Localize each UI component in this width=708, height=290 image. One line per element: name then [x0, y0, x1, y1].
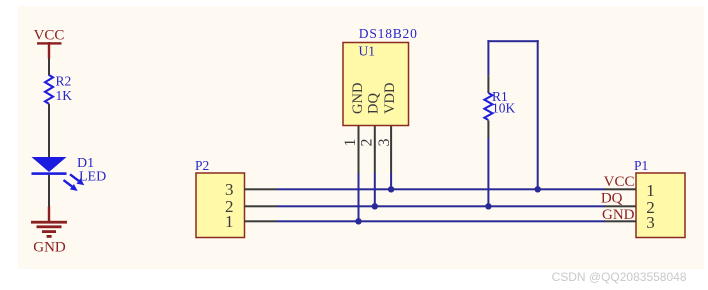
wire GND net [277, 220, 606, 222]
junction U1 pin1 / GND net [355, 218, 361, 224]
junction R1 / DQ net [485, 203, 491, 209]
svg-text:DS18B20: DS18B20 [359, 26, 418, 41]
junction U1 pin3 / VCC net [388, 186, 394, 192]
net label VCC [604, 174, 635, 190]
pin name DQ [365, 93, 381, 114]
LED D1 [32, 157, 85, 191]
wire R1 top loop [487, 40, 538, 190]
label P1 [634, 158, 648, 173]
svg-text:2: 2 [359, 139, 376, 147]
svg-text:VDD: VDD [382, 83, 398, 114]
svg-text:10K: 10K [492, 100, 516, 115]
resistor R1 [484, 75, 492, 138]
label 1K [56, 88, 73, 103]
label R1 [492, 89, 508, 104]
junction R1 loop / VCC net [535, 186, 541, 192]
connector P1 [636, 173, 685, 238]
IC U1 DS18B20 [343, 43, 409, 126]
svg-text:DQ: DQ [601, 191, 623, 207]
wire R1 bottom to DQ net [487, 138, 489, 206]
pin 3 of P2 [245, 188, 277, 190]
wire R2 to LED [48, 104, 50, 158]
pin 1 of P2 [245, 220, 277, 222]
label R2 [56, 73, 72, 88]
pin 3 of P1 [605, 220, 637, 222]
svg-text:U1: U1 [359, 44, 376, 59]
svg-text:VCC: VCC [604, 174, 635, 190]
pin 1 of P1 [605, 188, 637, 190]
svg-text:P2: P2 [195, 158, 209, 173]
junction U1 pin2 / DQ net [372, 203, 378, 209]
resistor R2 [45, 75, 53, 104]
pin 1 of U1 [342, 126, 360, 173]
net label GND [602, 207, 635, 223]
pin 3 of U1 [376, 126, 393, 173]
wire U1 pin3 to VCC net [390, 173, 392, 190]
net label DQ [601, 191, 623, 207]
svg-text:3: 3 [646, 213, 655, 232]
wire DQ net [277, 205, 606, 207]
svg-text:GND: GND [350, 83, 366, 114]
svg-text:GND: GND [33, 240, 66, 256]
svg-text:VCC: VCC [34, 28, 65, 44]
svg-text:R2: R2 [56, 73, 72, 88]
svg-text:1: 1 [225, 212, 234, 231]
label DS18B20 [359, 26, 418, 41]
wire VCC net [277, 188, 606, 190]
pin 2 of P2 [245, 205, 277, 207]
label 10K [492, 100, 516, 115]
svg-text:DQ: DQ [365, 93, 381, 114]
svg-text:LED: LED [79, 170, 106, 185]
watermark [552, 270, 687, 284]
power VCC [34, 28, 65, 59]
svg-text:CSDN @QQ2083558048: CSDN @QQ2083558048 [552, 270, 687, 284]
wire U1 pin1 to GND net [358, 173, 360, 222]
pin 2 of P1 [605, 205, 637, 207]
svg-text:1: 1 [342, 139, 359, 147]
connector P2 [196, 173, 245, 238]
label D1 [77, 156, 94, 171]
wire U1 pin2 to DQ net [374, 173, 376, 207]
pin name GND [350, 83, 366, 114]
svg-text:3: 3 [376, 139, 393, 147]
svg-text:1K: 1K [56, 88, 73, 103]
wire VCC to R2 [48, 59, 50, 76]
svg-text:P1: P1 [634, 158, 648, 173]
wire LED to GND [48, 175, 50, 207]
ground [31, 206, 67, 255]
label P2 [195, 158, 209, 173]
label LED [79, 170, 106, 185]
pin 2 of U1 [359, 126, 376, 173]
pin name VDD [382, 83, 398, 114]
